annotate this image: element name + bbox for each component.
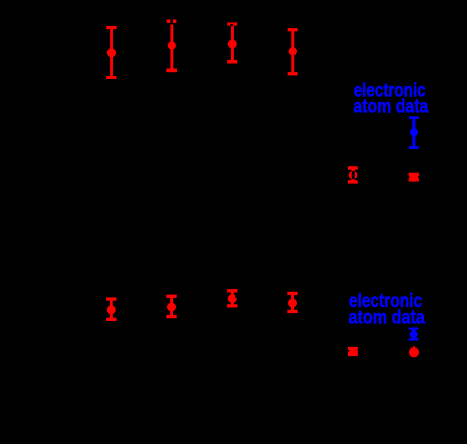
bottom panel data point 3 circle marker — [228, 294, 237, 303]
bottom panel data point 3 top cap — [227, 289, 237, 292]
bottom panel data point 1 circle marker — [107, 305, 116, 314]
bottom blue point error bar line — [412, 329, 415, 340]
top panel data point 3 bottom cap — [227, 60, 237, 64]
top red point A black overlay stripe — [352, 171, 355, 179]
bottom panel data point 2 circle marker — [167, 303, 176, 312]
bottom panel data point 1 error bar line — [110, 299, 113, 320]
top blue point top cap — [409, 116, 419, 119]
bottom panel data point 2 error bar line — [170, 296, 173, 317]
bottom panel data point 3 error bar line — [231, 290, 234, 306]
top panel data point 1 top cap — [106, 26, 116, 29]
bottom red circle marker — [409, 347, 419, 357]
top blue point error bar line — [412, 118, 415, 148]
top panel data point 3 top cap — [227, 22, 237, 25]
top panel data point 4 circle marker — [289, 47, 297, 55]
top panel data point 1 bottom cap — [106, 76, 116, 79]
top panel data point 4 top cap — [288, 28, 298, 31]
top red point A circle marker — [349, 171, 358, 180]
top red point A bottom cap — [348, 180, 358, 183]
bottom red square black overlay notch — [348, 350, 349, 352]
top red point B circle marker — [409, 173, 418, 182]
svg-text:atom data: atom data — [349, 307, 426, 328]
bottom panel data point 3 bottom cap — [227, 304, 237, 307]
bottom panel data point 1 bottom cap — [106, 318, 116, 321]
bottom panel data point 4 error bar line — [291, 293, 294, 311]
bottom panel data point 2 top cap — [166, 295, 176, 298]
top red point A top cap — [348, 166, 358, 170]
svg-text:atom data: atom data — [353, 96, 428, 117]
top panel data point 2 circle marker — [168, 41, 176, 49]
top panel data point 4 error bar line — [291, 30, 294, 75]
top red point B top cap — [409, 173, 419, 177]
top panel data point 1 circle marker — [107, 48, 116, 57]
bottom panel data point 4 circle marker — [288, 299, 297, 308]
bottom panel data point 1 top cap — [106, 297, 116, 300]
top blue point circle marker — [410, 128, 418, 136]
bottom panel data point 4 top cap — [287, 292, 297, 295]
bottom red circle stub — [413, 346, 415, 349]
top panel data point 2 black overlay gap — [170, 19, 173, 24]
bottom panel data point 2 bottom cap — [166, 315, 176, 318]
bottom panel data point 4 bottom cap — [287, 310, 297, 313]
top panel data point 3 black overlay notch — [231, 24, 234, 26]
bottom blue point top cap — [409, 328, 419, 330]
top panel data point 2 top cap — [167, 19, 177, 23]
top red point B bottom cap — [409, 178, 419, 181]
bottom red square marker — [348, 347, 358, 356]
bottom blue point bottom cap — [409, 338, 419, 340]
top panel data point 2 error bar line — [170, 24, 173, 70]
top panel data point 1 error bar line — [110, 27, 113, 77]
top blue point bottom cap — [409, 146, 419, 149]
bottom blue point circle marker — [410, 330, 418, 338]
top red point A error bar line — [352, 169, 355, 181]
top panel data point 4 bottom cap — [288, 72, 298, 75]
top panel data point 3 circle marker — [228, 40, 237, 49]
bottom panel data point 3 black overlay notch — [235, 296, 237, 298]
top panel data point 3 error bar line — [231, 24, 234, 61]
top panel data point 2 bottom cap — [166, 69, 177, 73]
